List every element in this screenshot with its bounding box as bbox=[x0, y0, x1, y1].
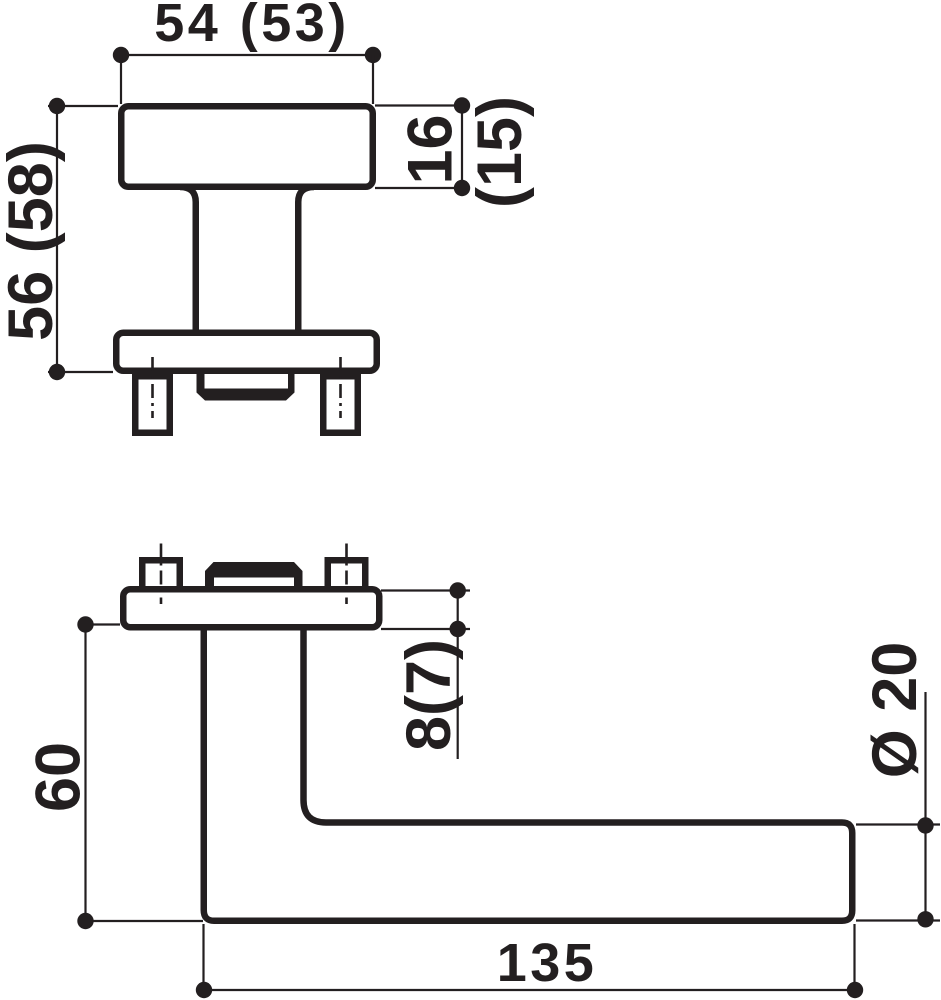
extension lines 16 bbox=[375, 104, 470, 106]
front view: rose flange plate bbox=[123, 589, 379, 627]
front view: spindle hump above rose bbox=[205, 562, 303, 589]
front view: right fixing pin bbox=[328, 560, 366, 592]
top view: grip bar cross-section rectangle (54 wide) bbox=[121, 106, 373, 187]
top view: right pin centerline bbox=[339, 357, 342, 418]
extension lines 54 bbox=[120, 55, 122, 104]
top view: left fixing pin bbox=[135, 376, 170, 433]
dimension line 60 bbox=[86, 623, 121, 625]
front view: left fixing pin bbox=[142, 560, 180, 592]
top view: right fixing pin bbox=[323, 376, 358, 433]
dimension line 8 (7) with leader bbox=[457, 591, 459, 760]
svg-text:(15): (15) bbox=[465, 96, 535, 208]
dimension line 54 bbox=[121, 54, 373, 56]
dimension line 56 bbox=[48, 105, 118, 107]
svg-text:16: 16 bbox=[396, 114, 466, 184]
top view: rose flange plate bbox=[116, 333, 377, 371]
extension lines diameter 20 bbox=[856, 823, 940, 825]
front view: lever handle L-shaped outline bbox=[204, 628, 853, 921]
dimension line 16 bbox=[461, 106, 463, 189]
front view: left pin centerline bbox=[160, 544, 163, 605]
front view: right pin centerline bbox=[345, 544, 348, 605]
top view: handle neck left side with fillet bbox=[180, 187, 196, 333]
dimension line diameter 20 bbox=[924, 692, 926, 919]
svg-text:Ø 20: Ø 20 bbox=[860, 642, 930, 779]
top view: spindle block below rose bbox=[197, 371, 295, 401]
top view: handle neck right side with fillet bbox=[298, 187, 314, 333]
extension lines 8 (7) bbox=[381, 589, 470, 591]
extension lines 135 bbox=[202, 924, 204, 990]
dimension line 135 bbox=[204, 989, 855, 991]
svg-text:135: 135 bbox=[497, 933, 598, 993]
svg-text:60: 60 bbox=[24, 742, 94, 812]
svg-text:54 (53): 54 (53) bbox=[154, 0, 350, 53]
top view: left pin centerline bbox=[151, 357, 154, 418]
svg-text:56 (58): 56 (58) bbox=[0, 141, 66, 341]
svg-text:8(7): 8(7) bbox=[394, 639, 464, 751]
